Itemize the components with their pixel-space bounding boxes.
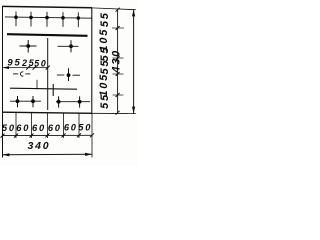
bottom extension line x79: [78, 113, 80, 138]
svg-text:95: 95: [7, 58, 21, 69]
right chain stub y28: [112, 27, 124, 29]
arrow right 340: [85, 153, 92, 156]
mid dim tick 2: [33, 66, 37, 70]
bolt row4 hole 2: [31, 96, 35, 107]
overall dimension line 430: [133, 10, 135, 114]
bolt row4 hole 1: [16, 96, 20, 107]
plate top edge: [3, 6, 93, 7]
svg-text:430: 430: [111, 49, 123, 74]
leg stub left: [36, 80, 38, 90]
svg-text:60: 60: [64, 123, 78, 133]
svg-text:340: 340: [28, 140, 51, 152]
top extension line right: [92, 8, 136, 10]
bolt row1 hole 1: [14, 12, 18, 27]
svg-text:50: 50: [2, 123, 16, 133]
svg-text:55: 55: [99, 93, 111, 109]
bolt row4 line left: [10, 100, 41, 102]
overall dimension line 340: [3, 153, 93, 156]
bolt row4 hole 4: [78, 96, 82, 107]
bolt row2 left: [20, 40, 37, 53]
right chain stub y95: [113, 94, 124, 96]
svg-text:55: 55: [99, 59, 111, 75]
svg-text:55: 55: [99, 11, 111, 27]
bolt row1 hole 5: [77, 12, 81, 27]
row1 centerline: [5, 17, 92, 18]
bottom extension line x31.5: [31, 113, 33, 138]
svg-text:50: 50: [34, 58, 47, 68]
svg-text:60: 60: [48, 123, 62, 133]
bottom extension line x92: [91, 113, 93, 158]
vertical axis centerline: [47, 38, 49, 110]
chain ticks: [1, 133, 95, 137]
bolt row1 hole 4: [61, 12, 65, 27]
bolt row4 line right: [56, 101, 90, 103]
mid dim tick 3: [46, 66, 50, 70]
svg-text:60: 60: [32, 123, 46, 133]
svg-text:50: 50: [78, 123, 92, 133]
mid dim tick 1: [26, 66, 30, 70]
right chain ticks: [116, 8, 120, 115]
bottom extension line right: [92, 112, 136, 114]
bolt row4 hole 3: [57, 96, 61, 107]
right chain stub y74: [113, 73, 124, 75]
right chain dimension line: [117, 10, 119, 113]
bolt row1 hole 2: [29, 12, 33, 27]
bottom extension line x47.5: [47, 113, 49, 138]
traverse line lower: [10, 88, 77, 89]
horizontal axis dash-dot mark: [13, 72, 30, 76]
mid dimension line: [3, 67, 48, 69]
plate right edge: [91, 8, 93, 114]
plate bottom edge: [3, 112, 93, 113]
arrow bottom 430: [132, 107, 135, 114]
plate left edge: [2, 6, 4, 158]
right chain stub y58: [113, 57, 124, 59]
arrow top 430: [132, 10, 135, 17]
traverse thick line: [7, 34, 88, 36]
bottom chain dimension line: [3, 134, 93, 136]
bolt row1 hole 3: [45, 12, 49, 27]
arrow left 340: [3, 153, 10, 156]
bottom extension line x16: [15, 113, 17, 138]
bolt row3 right: [57, 68, 80, 81]
bolt row2 right: [58, 40, 79, 52]
bolt leg stub center: [52, 84, 54, 96]
bottom extension line x63.5: [63, 113, 65, 138]
mid dim left arrow: [3, 66, 9, 69]
svg-text:60: 60: [16, 123, 30, 133]
